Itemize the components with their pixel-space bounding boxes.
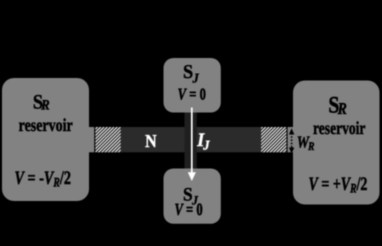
- label reservoir left: [19, 116, 73, 135]
- svg-text:N: N: [145, 131, 157, 151]
- label SR left: [33, 91, 50, 114]
- label V=0 top: [178, 85, 206, 103]
- label V=+VR/2 right: [309, 175, 368, 196]
- svg-text:J: J: [202, 139, 210, 153]
- svg-text:reservoir: reservoir: [19, 116, 73, 135]
- svg-text:V = -VR/2: V = -VR/2: [15, 169, 71, 190]
- reservoir box right: [293, 81, 380, 205]
- label WR: [297, 134, 315, 153]
- wire vertical neck: [185, 112, 197, 169]
- label SJ bottom: [183, 185, 198, 208]
- arrow IJ: [191, 108, 193, 174]
- label N: [145, 131, 157, 151]
- SJ box bottom: [164, 169, 221, 224]
- label IJ: [196, 130, 210, 154]
- label V=0 bottom: [174, 200, 202, 219]
- arrow WR: [289, 128, 294, 154]
- label SJ top: [183, 62, 199, 86]
- SJ box top: [164, 58, 221, 113]
- svg-text:V = +VR/2: V = +VR/2: [309, 175, 368, 196]
- svg-text:R: R: [307, 141, 314, 154]
- svg-text:V = 0: V = 0: [174, 200, 202, 219]
- svg-text:J: J: [192, 70, 200, 85]
- contact tab right: [288, 127, 293, 152]
- label SR right: [328, 92, 347, 118]
- barrier hatch left: [95, 127, 120, 152]
- label V=-VR/2 left: [15, 169, 71, 190]
- contact tab left: [89, 127, 94, 152]
- reservoir box left: [2, 78, 89, 201]
- svg-text:R: R: [40, 98, 49, 113]
- wire N bar: [95, 127, 286, 152]
- svg-text:V = 0: V = 0: [178, 85, 206, 103]
- label reservoir right: [313, 119, 365, 138]
- barrier hatch right: [261, 127, 286, 152]
- svg-text:reservoir: reservoir: [313, 119, 365, 138]
- svg-text:R: R: [337, 101, 347, 119]
